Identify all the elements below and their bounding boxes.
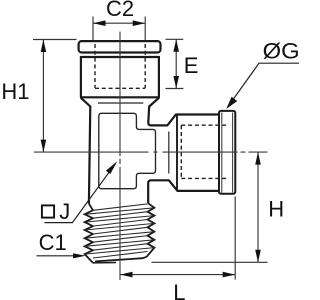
dimension C2 (93, 17, 145, 41)
thread root lines (93, 204, 148, 258)
flange inner tangent lines (222, 113, 233, 193)
inner stepped contour (99, 113, 156, 188)
svg-text:C2: C2 (106, 0, 134, 21)
side port cylinder tangent edge (176, 115, 178, 190)
fitting top port body walls and shoulder (80, 56, 160, 107)
horizontal centerline (34, 151, 267, 153)
neck tangent line (98, 102, 143, 104)
body right upper profile to side port (148, 106, 219, 126)
leader C1 arrow (37, 253, 86, 258)
svg-text:H1: H1 (1, 79, 29, 104)
male thread bottom edge (95, 257, 147, 262)
leader OG (226, 63, 299, 109)
male thread right zigzag (147, 203, 155, 256)
vertical centerline (119, 32, 121, 281)
hidden thread lines side port (dashed) (181, 125, 227, 178)
thread crest lines (85, 208, 155, 254)
svg-text:ØG: ØG (263, 39, 300, 64)
svg-text:L: L (173, 280, 185, 300)
svg-text:J: J (59, 199, 70, 224)
side port flange (219, 111, 235, 194)
svg-text:H: H (268, 197, 284, 222)
dimension H (152, 152, 268, 262)
dimension E (166, 39, 184, 88)
body right lower profile from side port (148, 180, 219, 203)
label J square symbol (42, 205, 54, 217)
hidden thread lines top port (dashed) (95, 44, 145, 88)
body left outer wall (89, 106, 90, 204)
male thread left zigzag (85, 204, 93, 263)
svg-text:C1: C1 (39, 230, 67, 255)
chamfer tangent line right port (168, 132, 170, 174)
fitting top female port cap (79, 41, 161, 52)
dimension H1 (33, 40, 77, 153)
leader J (45, 161, 118, 222)
dimension L (120, 197, 235, 280)
svg-text:E: E (184, 53, 199, 78)
